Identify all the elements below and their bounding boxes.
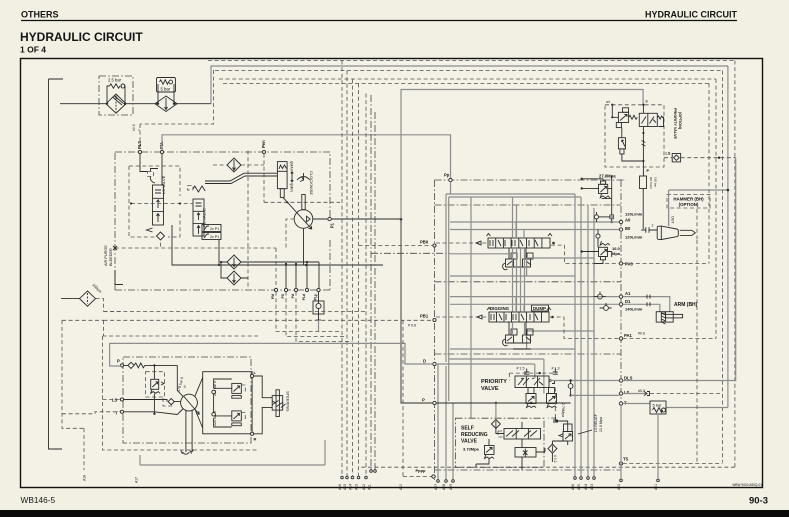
bleed diamond port bbox=[157, 232, 165, 240]
wire: LS line from pump to steering bbox=[115, 270, 123, 285]
steering outer dashed box bbox=[103, 336, 259, 450]
svg-text:A09: A09 bbox=[449, 484, 453, 490]
svg-text:LS: LS bbox=[666, 152, 671, 156]
svg-text:PM: PM bbox=[271, 294, 275, 299]
suction diamonds D2 D3 bbox=[220, 255, 248, 285]
svg-text:21.0 Mpa: 21.0 Mpa bbox=[599, 417, 603, 432]
svg-text:a4: a4 bbox=[606, 100, 610, 104]
port TS bbox=[619, 457, 722, 466]
svg-text:qMAX: qMAX bbox=[290, 161, 294, 172]
pressure reducing pair bbox=[526, 388, 565, 423]
wire: strainer pilot dashes bbox=[62, 299, 123, 470]
wire: suction line to filters bbox=[60, 103, 211, 105]
wire: P1 outlet bbox=[313, 219, 401, 222]
priority valve option group bbox=[605, 100, 682, 177]
svg-text:A17: A17 bbox=[135, 477, 139, 483]
filter 5bar return bbox=[650, 401, 666, 414]
svg-text:HAMMER (BH): HAMMER (BH) bbox=[673, 197, 704, 202]
spool row1 boom-swing bbox=[436, 234, 619, 264]
svg-text:120L/min: 120L/min bbox=[625, 235, 643, 240]
svg-text:TS: TS bbox=[623, 457, 629, 462]
svg-text:A15: A15 bbox=[343, 484, 347, 490]
svg-text:A06: A06 bbox=[571, 484, 575, 490]
svg-text:D: D bbox=[423, 359, 426, 364]
svg-text:≈: ≈ bbox=[137, 129, 141, 131]
PLp check valve box bbox=[313, 292, 324, 320]
priority valve bbox=[481, 367, 560, 393]
port PA0 bbox=[619, 262, 709, 267]
anti-drift row2 bbox=[503, 322, 533, 349]
svg-text:A01: A01 bbox=[654, 484, 658, 490]
pump P1 bbox=[283, 171, 314, 265]
svg-text:CLOCKWISE: CLOCKWISE bbox=[309, 171, 314, 195]
port PB1 bbox=[408, 314, 436, 328]
filter F1 2.5 bar bbox=[99, 76, 133, 115]
bottom line labels bbox=[83, 475, 658, 490]
LS-PC pilot dashed box bbox=[129, 166, 180, 237]
svg-text:LS RELIEF: LS RELIEF bbox=[594, 413, 598, 432]
svg-text:P: P bbox=[422, 398, 425, 403]
wire: pilot bundle verticals bbox=[342, 61, 366, 477]
pump bottom ports PM PS Pd PLd PLp bbox=[271, 261, 320, 301]
svg-text:R: R bbox=[254, 437, 257, 442]
svg-text:A16: A16 bbox=[338, 484, 342, 490]
svg-text:A0: A0 bbox=[625, 218, 631, 223]
svg-text:PS: PS bbox=[281, 293, 285, 298]
steering relief valve bbox=[146, 365, 165, 415]
svg-text:PA1: PA1 bbox=[624, 333, 633, 338]
svg-text:STEERING: STEERING bbox=[286, 391, 291, 411]
nested pilot box R2 bbox=[215, 71, 723, 463]
svg-text:PA0: PA0 bbox=[625, 262, 634, 267]
port DLS bbox=[619, 158, 735, 382]
svg-text:2x P1: 2x P1 bbox=[210, 227, 219, 231]
wire: work lines row2 bbox=[450, 297, 670, 335]
servo cylinder bbox=[277, 161, 293, 197]
steering check-relief block bbox=[203, 372, 252, 434]
svg-text:5 bar: 5 bar bbox=[161, 87, 171, 92]
bottom black bar bbox=[0, 510, 789, 517]
svg-text:A11: A11 bbox=[368, 484, 372, 490]
port Pp bbox=[444, 173, 452, 195]
wire: DLS from priority bbox=[549, 380, 619, 382]
svg-text:AIR PURGE: AIR PURGE bbox=[104, 245, 108, 266]
orifice check A0 bbox=[594, 212, 613, 241]
svg-text:DLS: DLS bbox=[624, 376, 633, 381]
port R steering bbox=[251, 407, 273, 441]
svg-text:#0.6: #0.6 bbox=[638, 332, 645, 336]
svg-text:# 0.6: # 0.6 bbox=[408, 324, 416, 328]
svg-text:180 bar: 180 bar bbox=[654, 177, 658, 187]
svg-text:PLd: PLd bbox=[302, 294, 306, 300]
port PLS bbox=[137, 141, 148, 172]
svg-text:A02: A02 bbox=[617, 484, 621, 490]
svg-text:A18: A18 bbox=[83, 475, 87, 481]
hammer group bbox=[641, 189, 729, 463]
header rule bbox=[21, 20, 737, 22]
wire: P1 riser to top bbox=[401, 90, 643, 220]
svg-text:DUMP: DUMP bbox=[533, 306, 546, 311]
svg-text:PB0: PB0 bbox=[420, 240, 429, 245]
svg-text:P: P bbox=[117, 359, 120, 364]
port P option bbox=[640, 169, 658, 229]
port P steering bbox=[117, 359, 177, 369]
port T steering bbox=[62, 410, 177, 415]
wire: P1 down to valve P port bbox=[401, 219, 433, 403]
wire: dashed drain lines bbox=[115, 151, 340, 288]
strainer 100um bbox=[61, 283, 102, 306]
port PB0 bbox=[359, 240, 437, 248]
svg-text:PRIORITY: PRIORITY bbox=[481, 379, 507, 385]
svg-text:qMIN: qMIN bbox=[290, 183, 294, 192]
svg-text:SELF: SELF bbox=[461, 426, 474, 432]
wire: diamond line to PLp bbox=[241, 262, 319, 288]
nested pilot box R4 bbox=[223, 83, 709, 263]
svg-text:2.79Mpa: 2.79Mpa bbox=[561, 403, 565, 417]
svg-text:A08: A08 bbox=[442, 484, 446, 490]
svg-text:VALVE: VALVE bbox=[481, 386, 499, 392]
pump group boundary bbox=[114, 152, 330, 290]
wire: P1L pilot to Pp bbox=[162, 135, 451, 179]
wire: steering return gray bbox=[140, 440, 325, 465]
port LS steering bbox=[103, 398, 182, 407]
port L steering bbox=[251, 370, 273, 398]
port Ppp bbox=[403, 320, 435, 478]
anti-drift row1 bbox=[503, 248, 533, 276]
port PA1 bbox=[619, 332, 716, 341]
relief 16.0Mpa bbox=[581, 238, 621, 263]
spring linkage to servo bbox=[205, 173, 277, 183]
port Pen bbox=[261, 140, 266, 154]
wire: case drain manifold bbox=[172, 225, 383, 265]
svg-text:WB146-5: WB146-5 bbox=[21, 495, 56, 505]
svg-text:Pen: Pen bbox=[261, 140, 266, 148]
svg-text:2x P1: 2x P1 bbox=[210, 235, 219, 239]
port P bbox=[422, 398, 571, 405]
svg-text:A07: A07 bbox=[434, 484, 438, 490]
svg-text:P1: P1 bbox=[330, 222, 335, 228]
filter F2 5 bar bbox=[155, 78, 177, 112]
svg-text:A14: A14 bbox=[349, 484, 353, 490]
suction diamond D1 bbox=[227, 158, 241, 172]
svg-text:PRIORITY VALVE: PRIORITY VALVE bbox=[673, 108, 677, 139]
arm cylinder bbox=[656, 302, 697, 324]
svg-text:#0.5: #0.5 bbox=[132, 124, 136, 131]
steering group boundary bbox=[123, 357, 251, 443]
svg-text:2: 2 bbox=[652, 224, 654, 228]
wire: PLp return bbox=[318, 320, 320, 332]
wire: tank gallery verticals bbox=[471, 194, 594, 480]
svg-text:VALVE: VALVE bbox=[461, 439, 478, 445]
svg-text:T: T bbox=[115, 411, 118, 416]
svg-text:PLS: PLS bbox=[137, 141, 142, 149]
wire: D section lines bbox=[449, 359, 544, 394]
LS relief valve bbox=[555, 413, 603, 445]
PC valve bbox=[188, 186, 207, 237]
svg-text:A13: A13 bbox=[355, 484, 359, 490]
svg-text:HYDRAULIC CIRCUIT: HYDRAULIC CIRCUIT bbox=[20, 30, 143, 44]
svg-text:A03: A03 bbox=[590, 484, 594, 490]
svg-text:2.5 bar: 2.5 bar bbox=[108, 78, 122, 83]
self reducing valve group bbox=[456, 403, 546, 470]
svg-text:Pp: Pp bbox=[444, 173, 450, 178]
svg-text:WBW 9000 A90Q-01: WBW 9000 A90Q-01 bbox=[732, 483, 762, 487]
svg-text:A04: A04 bbox=[584, 484, 588, 490]
svg-text:Pppp: Pppp bbox=[416, 468, 427, 473]
svg-text:PLp: PLp bbox=[314, 294, 318, 300]
svg-text:27.0Mpa: 27.0Mpa bbox=[599, 174, 616, 179]
port A0 bbox=[619, 212, 643, 224]
svg-text:D1: D1 bbox=[625, 299, 631, 304]
svg-text:B0: B0 bbox=[625, 226, 631, 231]
svg-text:OTHERS: OTHERS bbox=[21, 10, 59, 20]
svg-text:# 0.2: # 0.2 bbox=[553, 455, 557, 463]
svg-text:LS: LS bbox=[624, 390, 630, 395]
port LS option bbox=[664, 152, 736, 162]
wire: steering pilot long dashes bbox=[104, 312, 434, 321]
port P1L bbox=[159, 141, 164, 185]
svg-text:A1: A1 bbox=[625, 291, 631, 296]
svg-text:PB1: PB1 bbox=[420, 314, 429, 319]
steering cylinder bbox=[272, 390, 290, 417]
wire: tank line left vertical bbox=[49, 79, 64, 449]
svg-text:A10: A10 bbox=[399, 484, 403, 490]
port D1 bbox=[619, 299, 643, 312]
LS valve bbox=[147, 169, 167, 233]
wire: LS valve internal dashed bbox=[131, 203, 193, 205]
svg-text:(OPTION): (OPTION) bbox=[678, 112, 682, 130]
main relief 27.0Mpa bbox=[581, 174, 617, 224]
svg-text:RD 5mm: RD 5mm bbox=[649, 177, 653, 189]
svg-text:DIGGING: DIGGING bbox=[490, 306, 510, 311]
svg-text:A12: A12 bbox=[362, 484, 366, 490]
nested pilot box R3 bbox=[219, 79, 716, 339]
nested pilot box R1 bbox=[208, 61, 735, 468]
svg-text:REDUCING: REDUCING bbox=[461, 432, 488, 438]
svg-text:#0.5: #0.5 bbox=[638, 389, 645, 393]
valve block boundary bbox=[371, 180, 626, 480]
restrictor diamond 0.2 bbox=[548, 441, 568, 463]
port B0 bbox=[619, 226, 643, 240]
2x P1 orifice boxes bbox=[202, 225, 221, 240]
svg-text:ARM (BH): ARM (BH) bbox=[674, 302, 698, 308]
svg-text:OUT: OUT bbox=[671, 216, 675, 224]
svg-text:(OPTION): (OPTION) bbox=[679, 202, 699, 207]
svg-text:HYDRAULIC CIRCUIT: HYDRAULIC CIRCUIT bbox=[645, 10, 737, 20]
svg-text:Pd: Pd bbox=[291, 294, 295, 298]
svg-text:A05: A05 bbox=[577, 484, 581, 490]
steering orbital unit bbox=[177, 365, 203, 454]
svg-text:140L/min: 140L/min bbox=[625, 307, 643, 312]
wire: pump port pilots to bundle bbox=[276, 292, 353, 342]
port LS bbox=[571, 389, 723, 396]
svg-text:90-3: 90-3 bbox=[749, 496, 768, 507]
coupler arm lines bbox=[647, 295, 650, 307]
spool row2 digging-dump bbox=[436, 305, 619, 339]
svg-text:1 OF 4: 1 OF 4 bbox=[20, 45, 46, 55]
bottom port dots row bbox=[341, 470, 660, 483]
wire: work lines row1 bbox=[450, 197, 621, 349]
svg-text:120L/min: 120L/min bbox=[625, 212, 643, 217]
svg-text:3.73Mpa: 3.73Mpa bbox=[463, 447, 480, 452]
wire: pilot from filter outlet to PLS bbox=[140, 70, 214, 150]
diagram frame bbox=[21, 59, 763, 488]
port A1 bbox=[619, 291, 631, 298]
valve block P gallery bbox=[438, 194, 581, 480]
port D bbox=[110, 343, 535, 378]
wire: pilot bundle dashdot verticals bbox=[371, 95, 375, 470]
svg-text:BLEEDER: BLEEDER bbox=[109, 248, 113, 266]
svg-text:LS: LS bbox=[112, 398, 118, 403]
svg-text:# 1.5: # 1.5 bbox=[517, 367, 525, 371]
orifice checks row2 bbox=[594, 292, 612, 311]
wire: return riser to top rail bbox=[211, 66, 728, 104]
port T bbox=[619, 66, 728, 408]
svg-text:Mpa: Mpa bbox=[612, 251, 621, 256]
wire: A01 return drop bbox=[621, 405, 658, 479]
check to LS bbox=[568, 379, 573, 396]
